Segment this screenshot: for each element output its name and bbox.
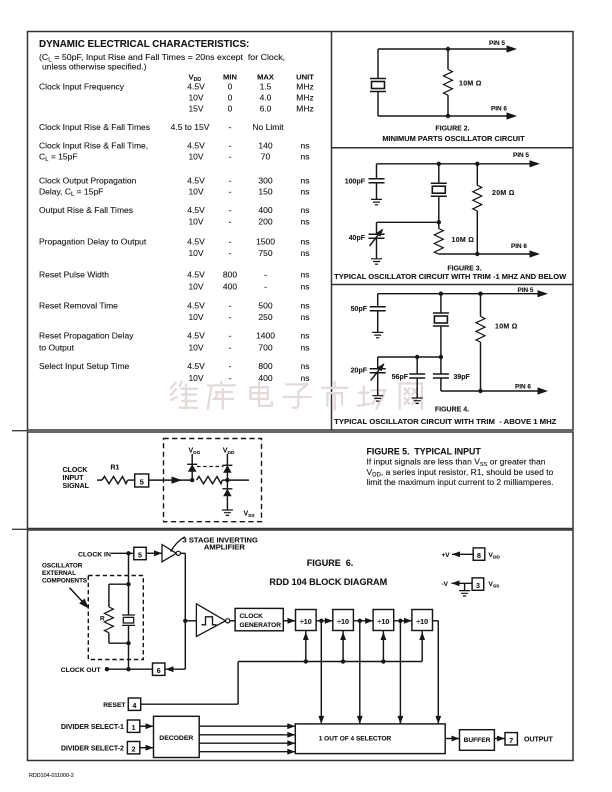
svg-text:7: 7 (509, 738, 513, 745)
svg-text:40pF: 40pF (349, 235, 366, 242)
svg-text:3: 3 (476, 583, 480, 590)
svg-text:-: - (229, 141, 232, 151)
svg-text:10V: 10V (188, 93, 203, 103)
svg-text:140: 140 (258, 141, 272, 151)
svg-text:PIN 6: PIN 6 (491, 106, 507, 113)
svg-text:10V: 10V (188, 343, 203, 353)
svg-text:Clock Input Rise & Fall Time,: Clock Input Rise & Fall Time, (39, 141, 148, 151)
svg-text:ns: ns (301, 343, 310, 353)
svg-text:Select Input Setup Time: Select Input Setup Time (39, 361, 130, 371)
svg-text:Propagation Delay to Output: Propagation Delay to Output (39, 237, 147, 247)
svg-text:PIN 5: PIN 5 (513, 152, 529, 159)
svg-text:Reset Propagation Delay: Reset Propagation Delay (39, 331, 134, 341)
svg-text:TYPICAL OSCILLATOR CIRCUIT WIT: TYPICAL OSCILLATOR CIRCUIT WITH TRIM - A… (334, 417, 557, 426)
svg-text:15V: 15V (188, 104, 203, 114)
svg-text:ns: ns (301, 282, 310, 292)
svg-text:-: - (229, 331, 232, 341)
svg-text:Clock Output Propagation: Clock Output Propagation (39, 176, 137, 186)
svg-text:56pF: 56pF (392, 374, 409, 381)
svg-text:20M Ω: 20M Ω (492, 190, 515, 197)
svg-text:ns: ns (301, 187, 310, 197)
svg-text:10V: 10V (188, 217, 203, 227)
svg-text:5: 5 (138, 553, 142, 560)
svg-text:OSCILLATOR: OSCILLATOR (42, 563, 83, 570)
svg-text:MAX: MAX (257, 72, 274, 81)
svg-text:300: 300 (258, 176, 272, 186)
svg-text:10V: 10V (188, 152, 203, 162)
svg-text:0: 0 (228, 82, 233, 92)
svg-text:unless otherwise specified.): unless otherwise specified.) (42, 61, 147, 71)
svg-text:400: 400 (258, 205, 272, 215)
svg-text:FIGURE 2.: FIGURE 2. (435, 126, 469, 133)
svg-text:FIGURE 5. TYPICAL INPUT: FIGURE 5. TYPICAL INPUT (367, 446, 482, 456)
svg-text:EXTERNAL: EXTERNAL (42, 570, 76, 577)
svg-text:-: - (229, 176, 232, 186)
svg-text:400: 400 (258, 373, 272, 383)
svg-text:10V: 10V (188, 373, 203, 383)
svg-text:0: 0 (228, 93, 233, 103)
svg-text:-V: -V (442, 581, 449, 588)
svg-text:limit the maximum input curren: limit the maximum input current to 2 mil… (367, 477, 554, 487)
svg-text:VDD: VDD (189, 448, 201, 457)
svg-text:10V: 10V (188, 312, 203, 322)
svg-text:1.5: 1.5 (260, 82, 272, 92)
svg-text:DIVIDER SELECT-1: DIVIDER SELECT-1 (61, 724, 124, 731)
svg-text:Output Rise & Fall Times: Output Rise & Fall Times (39, 205, 133, 215)
svg-text:VDD: VDD (488, 552, 500, 561)
svg-text:ns: ns (301, 205, 310, 215)
svg-text:4.5V: 4.5V (187, 176, 205, 186)
svg-text:10V: 10V (188, 187, 203, 197)
svg-text:Clock Input Frequency: Clock Input Frequency (39, 82, 125, 92)
svg-text:4: 4 (133, 703, 137, 710)
svg-text:MINIMUM PARTS OSCILLATOR CIRCU: MINIMUM PARTS OSCILLATOR CIRCUIT (382, 134, 525, 143)
svg-text:COMPONENTS: COMPONENTS (42, 577, 87, 584)
svg-text:500: 500 (258, 301, 272, 311)
svg-text:200: 200 (258, 217, 272, 227)
svg-text:Reset Pulse Width: Reset Pulse Width (39, 270, 109, 280)
svg-text:10V: 10V (188, 248, 203, 258)
svg-text:1500: 1500 (256, 237, 275, 247)
svg-text:100pF: 100pF (345, 178, 366, 185)
svg-text:DYNAMIC ELECTRICAL CHARACTERIS: DYNAMIC ELECTRICAL CHARACTERISTICS: (39, 39, 249, 50)
svg-text:6.0: 6.0 (260, 104, 272, 114)
svg-text:-: - (229, 312, 232, 322)
svg-text:4.5V: 4.5V (187, 331, 205, 341)
svg-text:MHz: MHz (296, 93, 313, 103)
svg-text:4.5V: 4.5V (187, 205, 205, 215)
svg-text:4.5V: 4.5V (187, 237, 205, 247)
svg-text:4.5 to 15V: 4.5 to 15V (171, 122, 210, 132)
svg-text:CLOCK: CLOCK (63, 467, 88, 474)
svg-text:10M Ω: 10M Ω (459, 80, 482, 87)
svg-text:-: - (229, 205, 232, 215)
svg-text:CLOCK IN: CLOCK IN (78, 551, 111, 558)
svg-text:10M Ω: 10M Ω (452, 237, 475, 244)
svg-text:50pF: 50pF (351, 306, 368, 313)
svg-text:÷10: ÷10 (416, 617, 428, 626)
svg-text:750: 750 (258, 248, 272, 258)
svg-text:ns: ns (301, 176, 310, 186)
svg-text:4.5V: 4.5V (187, 141, 205, 151)
svg-text:4.5V: 4.5V (187, 82, 205, 92)
svg-text:÷10: ÷10 (337, 617, 349, 626)
svg-text:70: 70 (261, 152, 271, 162)
svg-text:800: 800 (223, 270, 237, 280)
svg-text:CLOCK: CLOCK (240, 613, 264, 620)
svg-text:4.5V: 4.5V (187, 361, 205, 371)
svg-text:MHz: MHz (296, 104, 313, 114)
svg-text:AMPLIFIER: AMPLIFIER (204, 543, 245, 552)
svg-text:6: 6 (157, 668, 161, 675)
svg-text:700: 700 (258, 343, 272, 353)
svg-text:ns: ns (301, 301, 310, 311)
svg-text:-: - (229, 361, 232, 371)
svg-text:÷10: ÷10 (300, 617, 312, 626)
svg-text:RESET: RESET (103, 702, 126, 709)
svg-text:VDD: VDD (223, 448, 235, 457)
svg-text:BUFFER: BUFFER (464, 737, 491, 744)
svg-text:PIN 5: PIN 5 (518, 287, 534, 294)
svg-text:GENERATOR: GENERATOR (240, 622, 282, 629)
svg-text:-: - (229, 237, 232, 247)
svg-text:DECODER: DECODER (159, 735, 193, 742)
svg-text:VSS: VSS (244, 511, 256, 520)
svg-text:0: 0 (228, 104, 233, 114)
svg-text:+V: +V (442, 552, 451, 559)
svg-text:Clock Input Rise & Fall Times: Clock Input Rise & Fall Times (39, 122, 150, 132)
svg-text:-: - (264, 270, 267, 280)
svg-text:ns: ns (301, 141, 310, 151)
svg-text:-: - (229, 187, 232, 197)
svg-text:DIVIDER SELECT-2: DIVIDER SELECT-2 (61, 745, 124, 752)
svg-text:4.0: 4.0 (260, 93, 272, 103)
svg-text:4.5V: 4.5V (187, 301, 205, 311)
svg-text:ns: ns (301, 270, 310, 280)
svg-text:4.5V: 4.5V (187, 270, 205, 280)
svg-text:ns: ns (301, 373, 310, 383)
svg-text:1: 1 (132, 725, 136, 732)
svg-text:-: - (229, 217, 232, 227)
svg-text:Delay, CL = 15pF: Delay, CL = 15pF (39, 187, 103, 199)
svg-text:FIGURE 4.: FIGURE 4. (435, 406, 469, 413)
svg-text:250: 250 (258, 312, 272, 322)
svg-text:R: R (100, 616, 105, 623)
svg-text:2: 2 (132, 747, 136, 754)
svg-text:TYPICAL OSCILLATOR CIRCUIT WIT: TYPICAL OSCILLATOR CIRCUIT WITH TRIM -1 … (334, 272, 567, 281)
svg-text:-: - (264, 282, 267, 292)
svg-text:MHz: MHz (296, 82, 313, 92)
svg-text:PIN 5: PIN 5 (489, 40, 505, 47)
svg-text:10M Ω: 10M Ω (495, 324, 518, 331)
svg-text:VSS: VSS (488, 581, 500, 590)
svg-text:Reset Removal Time: Reset Removal Time (39, 301, 118, 311)
svg-text:ns: ns (301, 361, 310, 371)
svg-text:FIGURE 6.: FIGURE 6. (307, 558, 354, 568)
svg-text:5: 5 (140, 477, 144, 486)
svg-text:ns: ns (301, 152, 310, 162)
svg-text:ns: ns (301, 312, 310, 322)
svg-text:ns: ns (301, 237, 310, 247)
svg-text:CLOCK OUT: CLOCK OUT (61, 667, 102, 674)
svg-text:1400: 1400 (256, 331, 275, 341)
svg-text:-: - (229, 301, 232, 311)
svg-text:UNIT: UNIT (296, 72, 314, 81)
svg-text:CL = 15pF: CL = 15pF (39, 152, 78, 164)
svg-text:ns: ns (301, 331, 310, 341)
svg-text:-: - (229, 373, 232, 383)
svg-text:10V: 10V (188, 282, 203, 292)
svg-text:RDD104-011000-2: RDD104-011000-2 (29, 773, 74, 779)
svg-text:39pF: 39pF (454, 374, 471, 381)
svg-text:OUTPUT: OUTPUT (524, 736, 554, 743)
svg-text:RDD 104 BLOCK DIAGRAM: RDD 104 BLOCK DIAGRAM (269, 577, 387, 587)
svg-text:SIGNAL: SIGNAL (63, 483, 90, 490)
svg-text:No Limit: No Limit (252, 122, 284, 132)
svg-text:8: 8 (477, 553, 481, 560)
svg-text:20pF: 20pF (351, 367, 368, 374)
svg-text:-: - (229, 152, 232, 162)
svg-text:INPUT: INPUT (63, 475, 85, 482)
svg-text:÷10: ÷10 (377, 617, 389, 626)
svg-text:800: 800 (258, 361, 272, 371)
svg-text:-: - (229, 122, 232, 132)
svg-text:1 OUT OF 4 SELECTOR: 1 OUT OF 4 SELECTOR (319, 736, 392, 743)
svg-text:R1: R1 (111, 465, 120, 472)
svg-text:-: - (229, 343, 232, 353)
svg-text:-: - (229, 248, 232, 258)
svg-text:PIN 6: PIN 6 (515, 384, 531, 391)
svg-text:PIN 6: PIN 6 (511, 243, 527, 250)
svg-text:to Output: to Output (39, 343, 75, 353)
svg-text:MIN: MIN (223, 72, 237, 81)
svg-text:400: 400 (223, 282, 237, 292)
svg-text:ns: ns (301, 217, 310, 227)
svg-text:ns: ns (301, 248, 310, 258)
svg-text:150: 150 (258, 187, 272, 197)
